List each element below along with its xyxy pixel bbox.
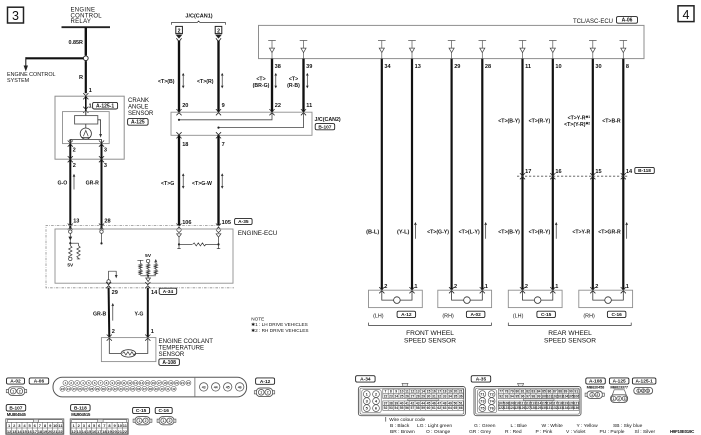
connector crossing at crank sensor pin 1 [83, 93, 88, 99]
CAN wire pin 38 to pin 22 [271, 59, 273, 113]
connector ref A-35 at ecu pin [235, 218, 253, 224]
svg-text:C-15: C-15 [541, 312, 552, 318]
svg-text:66: 66 [459, 406, 463, 410]
svg-text:59: 59 [421, 406, 425, 410]
svg-text:43: 43 [202, 385, 206, 389]
svg-text:38: 38 [149, 387, 153, 391]
svg-text:61: 61 [432, 406, 436, 410]
svg-text:GR-R: GR-R [86, 181, 100, 187]
CAN bus line 2 inside J/C(CAN2) [219, 112, 304, 127]
svg-text:A-125: A-125 [131, 120, 145, 126]
front left wheel speed sensor box [369, 290, 423, 307]
crank sensor pickup element rect [85, 112, 87, 116]
svg-text:1: 1 [12, 389, 14, 393]
svg-text:26: 26 [78, 387, 82, 391]
svg-text:MB823377: MB823377 [610, 384, 627, 389]
svg-text:2: 2 [454, 284, 457, 290]
svg-text:MU804515: MU804515 [71, 412, 91, 417]
svg-text:23: 23 [389, 394, 393, 398]
svg-text:J/C(CAN2): J/C(CAN2) [315, 117, 341, 123]
svg-text:B-107: B-107 [318, 124, 331, 130]
svg-text:88: 88 [558, 390, 562, 394]
svg-text:34: 34 [384, 64, 391, 70]
front wheel speed sensor bracket [369, 323, 492, 326]
svg-text:53: 53 [389, 406, 393, 410]
direction arrow CAN-B [182, 74, 184, 88]
svg-text:(R-B): (R-B) [287, 83, 300, 89]
svg-text:25: 25 [72, 387, 76, 391]
connector crossing ecu pin 14 [145, 282, 150, 288]
svg-text:REAR WHEEL: REAR WHEEL [548, 330, 592, 337]
svg-text:A-02: A-02 [10, 379, 21, 385]
svg-text:Wire colour code: Wire colour code [389, 417, 425, 423]
svg-text:20: 20 [453, 390, 457, 394]
svg-text:79: 79 [510, 390, 514, 394]
ecu 5V node below pin 13 [69, 257, 72, 260]
connector crossing can2 pin 20 [176, 109, 181, 115]
svg-text:1: 1 [638, 389, 640, 393]
TCL/ASC-ECU internal pin symbol 39 [300, 41, 308, 59]
svg-text:2: 2 [267, 391, 269, 395]
ecu resistor R2 branch [78, 243, 80, 246]
connector ref A-06 [617, 17, 638, 24]
svg-text:<T>(R-Y): <T>(R-Y) [529, 229, 551, 235]
svg-text:136: 136 [573, 406, 579, 410]
svg-text:<T>(R-Y): <T>(R-Y) [529, 118, 551, 124]
ecu pin 106 triangle [177, 230, 182, 232]
connector crossing rear left sensor pin 1 [550, 287, 555, 293]
svg-text:38: 38 [275, 64, 281, 70]
wire 0.85R from relay [85, 27, 87, 55]
direction arrow T-G [182, 174, 184, 188]
svg-text:A-12: A-12 [260, 379, 271, 385]
connector crossing ecu pin 106 [176, 224, 181, 230]
svg-text:45: 45 [427, 402, 431, 406]
svg-text:99: 99 [537, 394, 541, 398]
svg-text:SB : Sky blue: SB : Sky blue [613, 423, 643, 429]
ecu pin 28 input circle [100, 230, 103, 233]
wire colour code heading [385, 417, 387, 422]
svg-text:O : Orange: O : Orange [426, 429, 450, 435]
connector ref label C-15 [133, 407, 150, 413]
svg-text:94: 94 [510, 394, 514, 398]
svg-text:39: 39 [306, 64, 312, 70]
TCL/ASC-ECU internal pin symbol 30 [589, 41, 597, 59]
connector ref label A-02 bottom strip [7, 378, 25, 384]
svg-text:35: 35 [131, 387, 135, 391]
svg-text:13: 13 [73, 219, 79, 225]
ecu CAN terminating resistor [179, 243, 192, 245]
svg-text:3: 3 [104, 148, 107, 154]
svg-text:93: 93 [505, 394, 509, 398]
svg-text:37: 37 [143, 387, 147, 391]
svg-text:63: 63 [443, 406, 447, 410]
ecu pin 13 junction dot [69, 242, 71, 244]
svg-text:1: 1 [485, 284, 488, 290]
svg-text:7: 7 [385, 390, 387, 394]
svg-text:10: 10 [400, 390, 404, 394]
svg-text:9: 9 [222, 103, 225, 109]
ecu output triangle to pin 14 [147, 276, 149, 278]
svg-text:2: 2 [384, 284, 387, 290]
svg-text:98: 98 [531, 394, 535, 398]
svg-text:2: 2 [145, 419, 147, 423]
svg-text:22: 22 [123, 429, 128, 434]
connector crossing sensor pin 3 inner [99, 141, 104, 147]
svg-text:<T>GR-R: <T>GR-R [598, 229, 621, 235]
svg-text:SYSTEM: SYSTEM [7, 78, 30, 84]
wheel sensor wire 29 [451, 59, 453, 291]
svg-text:72: 72 [489, 392, 494, 397]
connector crossing rear left sensor pin 2 [520, 287, 525, 293]
svg-text:1: 1 [260, 391, 262, 395]
svg-text:22: 22 [384, 394, 388, 398]
connector crossing sensor pin 2 exit [68, 156, 73, 162]
connector ref label C-16 [155, 407, 172, 413]
svg-text:11: 11 [306, 103, 312, 109]
svg-text:11: 11 [405, 390, 409, 394]
svg-text:42: 42 [410, 402, 414, 406]
svg-text:5V: 5V [67, 262, 74, 268]
svg-text:1: 1 [163, 419, 165, 423]
svg-text:(B-L): (B-L) [366, 229, 379, 235]
svg-text:38: 38 [389, 402, 393, 406]
svg-text:81: 81 [521, 390, 525, 394]
svg-text:8: 8 [626, 64, 629, 70]
svg-text:MB820458: MB820458 [587, 384, 605, 389]
svg-text:92: 92 [499, 394, 503, 398]
svg-text:(RH): (RH) [583, 314, 595, 320]
svg-text:87: 87 [553, 390, 557, 394]
svg-text:36: 36 [459, 394, 463, 398]
svg-text:1: 1 [414, 284, 417, 290]
svg-text:18: 18 [163, 381, 167, 385]
svg-text:SENSOR: SENSOR [128, 111, 154, 117]
wire to engine control system [26, 57, 83, 59]
svg-text:PU : Purple: PU : Purple [600, 429, 625, 435]
arrow to engine control system [25, 57, 27, 66]
svg-text:30: 30 [595, 64, 601, 70]
svg-text:33: 33 [119, 387, 123, 391]
connector face A-34 [402, 383, 408, 387]
ecu 5V node circle [146, 259, 149, 262]
J/C(CAN1) bracket [172, 21, 226, 25]
svg-text:64: 64 [448, 406, 452, 410]
svg-text:CRANK: CRANK [128, 98, 149, 104]
svg-text:2: 2 [595, 284, 598, 290]
TCL/ASC-ECU internal pin symbol 10 [549, 41, 557, 59]
connector crossing B-118 pin 16 [550, 173, 555, 179]
svg-text:C-15: C-15 [136, 408, 147, 414]
svg-text:71: 71 [480, 392, 485, 397]
svg-text:55: 55 [400, 406, 404, 410]
svg-text:TCL/ASC-ECU: TCL/ASC-ECU [573, 19, 613, 25]
wire R to crank angle sensor [85, 61, 87, 93]
svg-text:22: 22 [58, 429, 63, 434]
direction arrow rear-left sensor wires [555, 223, 557, 239]
direction arrow front-left sensor wires [414, 223, 416, 239]
connector ref label A-35 [471, 376, 491, 382]
direction arrow GR-B [112, 304, 114, 321]
svg-text:13: 13 [134, 381, 138, 385]
svg-text:85: 85 [542, 390, 546, 394]
svg-text:3: 3 [12, 9, 19, 23]
svg-text:77: 77 [499, 390, 503, 394]
svg-text:16: 16 [432, 390, 436, 394]
svg-text:SPEED SENSOR: SPEED SENSOR [404, 337, 456, 344]
svg-text:40: 40 [160, 387, 164, 391]
svg-text:<T>G-W: <T>G-W [192, 181, 212, 187]
svg-text:28: 28 [485, 64, 491, 70]
svg-text:2: 2 [73, 163, 76, 169]
svg-text:(BR-G): (BR-G) [253, 83, 270, 89]
svg-text:MU804545: MU804545 [7, 412, 27, 417]
svg-text:45: 45 [226, 385, 230, 389]
svg-text:R : Red: R : Red [505, 429, 522, 435]
ecu pin 105 triangle [216, 230, 221, 232]
svg-text:15: 15 [595, 169, 601, 175]
CAN bus line 1 inside J/C(CAN2) [179, 112, 272, 120]
svg-text:A-125-1: A-125-1 [96, 104, 114, 110]
crank sensor inner unit box [63, 112, 110, 144]
svg-text:17: 17 [525, 169, 531, 175]
svg-text:14: 14 [140, 381, 144, 385]
svg-text:B : Black: B : Black [390, 423, 410, 429]
wire stub pin1 inside sensor [85, 96, 87, 111]
ecu 5V right branch arrow [155, 260, 157, 264]
ENGINE-ECU solid box [55, 229, 233, 283]
svg-text:75: 75 [480, 406, 485, 411]
svg-text:Y : Yellow: Y : Yellow [577, 423, 599, 429]
svg-text:30: 30 [102, 387, 106, 391]
svg-text:57: 57 [410, 406, 414, 410]
svg-text:<T>: <T> [256, 76, 265, 82]
crank sensor generator circle [85, 124, 87, 128]
wire GR-R [101, 159, 103, 229]
connector crossing coolant pin 2 [107, 335, 112, 341]
svg-text:<T>(L-Y): <T>(L-Y) [459, 229, 480, 235]
svg-text:32: 32 [437, 394, 441, 398]
svg-text:LG : Light green: LG : Light green [417, 423, 452, 429]
svg-text:1: 1 [591, 393, 593, 397]
svg-text:14: 14 [626, 169, 633, 175]
svg-text:35: 35 [453, 394, 457, 398]
connector crossing can2 pin 7 [216, 132, 221, 138]
coolant sensor internal wiring [109, 338, 121, 354]
intermediate connector B-118 dashed line [517, 175, 628, 177]
svg-text:V : Violet: V : Violet [566, 429, 586, 435]
svg-text:2: 2 [178, 28, 181, 34]
junction node circle [83, 56, 88, 61]
connector ref A-02 [466, 311, 485, 317]
svg-text:<T>Y-R: <T>Y-R [572, 229, 590, 235]
connector crossing can2 pin 11 [301, 109, 306, 115]
svg-text:2: 2 [525, 284, 528, 290]
ecu switched output to pin 29 [109, 271, 117, 280]
TCL/ASC-ECU internal pin symbol 8 [620, 41, 628, 59]
svg-text:24: 24 [394, 394, 398, 398]
svg-text:2: 2 [112, 329, 115, 335]
connector crossing can2 pin 18 [176, 132, 181, 138]
connector crossing sensor pin 2 inner [68, 141, 73, 147]
svg-text:GR-B: GR-B [93, 311, 107, 317]
svg-text:✱1 : LH DRIVE VEHICLES: ✱1 : LH DRIVE VEHICLES [251, 322, 308, 327]
svg-text:40: 40 [400, 402, 404, 406]
connector crossing ecu pin 13 [68, 224, 73, 230]
svg-text:ENGINE-ECU: ENGINE-ECU [238, 230, 278, 237]
svg-text:18: 18 [182, 142, 188, 148]
svg-text:39: 39 [394, 402, 398, 406]
wheel sensor wire 13 [411, 59, 413, 291]
svg-text:29: 29 [454, 64, 460, 70]
svg-text:16: 16 [555, 169, 561, 175]
svg-text:5V: 5V [145, 253, 152, 259]
TCL/ASC-ECU internal pin symbol 13 [408, 41, 416, 59]
svg-text:1: 1 [89, 104, 92, 110]
connector crossing ecu pin 105 [216, 224, 221, 230]
connector crossing coolant pin 1 [145, 335, 150, 341]
svg-text:15: 15 [146, 381, 150, 385]
svg-text:✱2 : RH DRIVE VEHICLES: ✱2 : RH DRIVE VEHICLES [251, 328, 308, 333]
svg-text:16: 16 [152, 381, 156, 385]
J/C(CAN1) connector 2 left [176, 26, 183, 33]
wire GR-B [108, 288, 111, 338]
svg-text:84: 84 [537, 390, 541, 394]
svg-text:8: 8 [390, 390, 392, 394]
svg-text:78: 78 [505, 390, 509, 394]
TCL/ASC-ECU box [259, 25, 645, 58]
svg-text:49: 49 [448, 402, 452, 406]
connector crossing rear right sensor pin 1 [621, 287, 626, 293]
connector ref C-16 [607, 311, 626, 317]
connector face B-118 [70, 419, 128, 434]
connector face A-108 [587, 391, 602, 398]
svg-text:22: 22 [275, 103, 281, 109]
connector ref B-118 [635, 167, 655, 173]
connector ref B-107 [315, 124, 335, 130]
svg-text:44: 44 [214, 385, 218, 389]
svg-text:15: 15 [427, 390, 431, 394]
J/C(CAN1) connector 2 right [215, 26, 222, 33]
connector face A-125-1 [634, 387, 653, 394]
svg-text:RELAY: RELAY [71, 19, 92, 25]
svg-text:2: 2 [596, 393, 598, 397]
svg-text:80: 80 [515, 390, 519, 394]
svg-text:34: 34 [125, 387, 129, 391]
crank sensor internal ground line [70, 138, 101, 140]
svg-text:34: 34 [448, 394, 452, 398]
svg-text:89: 89 [564, 390, 568, 394]
connector ref C-15 [537, 311, 556, 317]
svg-text:60: 60 [427, 406, 431, 410]
svg-text:30: 30 [427, 394, 431, 398]
svg-text:90: 90 [569, 390, 573, 394]
svg-text:19: 19 [448, 390, 452, 394]
svg-text:14: 14 [421, 390, 425, 394]
svg-text:39: 39 [154, 387, 158, 391]
connector face A-02 [8, 387, 25, 396]
connector face A-12 [256, 388, 273, 397]
connector crossing can2 pin 9 [216, 109, 221, 115]
connector crossing B-118 pin 14 [621, 173, 626, 179]
svg-text:P : Pink: P : Pink [536, 429, 553, 435]
svg-text:12: 12 [410, 390, 414, 394]
svg-text:41: 41 [166, 387, 170, 391]
svg-text:52: 52 [384, 406, 388, 410]
wheel sensor wire 8 [622, 59, 624, 291]
connector ref label A-34 [356, 376, 376, 382]
wheel sensor wire 30 [592, 59, 594, 291]
svg-text:<T>G: <T>G [161, 181, 174, 187]
direction arrow on wire G-O [73, 175, 75, 190]
svg-text:(LH): (LH) [513, 314, 524, 320]
coolant sensor thermistor [121, 350, 136, 357]
svg-text:Y-G: Y-G [135, 311, 144, 317]
connector ref label A-06 bottom strip [29, 378, 49, 384]
CAN-B wire J/C(CAN1) to pin 20 [178, 41, 180, 113]
svg-text:27: 27 [84, 387, 88, 391]
svg-text:ANGLE: ANGLE [128, 104, 148, 110]
svg-text:3: 3 [624, 397, 626, 401]
svg-text:36: 36 [137, 387, 141, 391]
svg-text:56: 56 [405, 406, 409, 410]
svg-text:10: 10 [555, 64, 561, 70]
ecu CAN terminator left stem [178, 237, 180, 248]
CAN wire pin 39 to pin 11 [302, 59, 304, 113]
svg-text:47: 47 [437, 402, 441, 406]
direction arrow rear-right sensor wires [626, 223, 628, 239]
svg-text:2: 2 [19, 389, 21, 393]
direction arrow R-B [306, 74, 308, 88]
svg-text:(Y-L): (Y-L) [397, 229, 410, 235]
ecu pin 13 comparator arrow [68, 237, 72, 241]
svg-text:1: 1 [139, 419, 141, 423]
svg-text:37: 37 [384, 402, 388, 406]
connector ref label A-108 bottom strip [586, 378, 606, 384]
svg-text:95: 95 [515, 394, 519, 398]
TCL/ASC-ECU internal pin symbol 29 [448, 41, 456, 59]
svg-text:A-02: A-02 [470, 312, 481, 318]
svg-text:91: 91 [574, 390, 578, 394]
svg-text:41: 41 [405, 402, 409, 406]
wheel sensor wire 10 [552, 59, 554, 291]
rear right wheel speed sensor box [579, 290, 633, 307]
svg-text:25: 25 [400, 394, 404, 398]
crank angle sensor box [55, 96, 124, 159]
svg-text:W : White: W : White [542, 423, 563, 429]
TCL/ASC-ECU internal pin symbol 38 [268, 41, 276, 59]
svg-text:NOTE: NOTE [251, 317, 264, 322]
svg-text:74: 74 [489, 399, 494, 404]
svg-text:2: 2 [169, 419, 171, 423]
connector crossing front right sensor pin 1 [480, 287, 485, 293]
ecu pin 28 stub wire [101, 233, 103, 242]
svg-text:13: 13 [416, 390, 420, 394]
direction arrow T-G-W [221, 174, 223, 188]
TCL/ASC-ECU internal pin symbol 11 [519, 41, 527, 59]
svg-text:R: R [79, 75, 83, 81]
TCL/ASC-ECU internal pin symbol 28 [479, 41, 487, 59]
ecu 5V left branch [137, 260, 143, 263]
connector crossing A-125-1 [83, 107, 88, 113]
ecu pull-up branch link [70, 242, 78, 244]
svg-text:4: 4 [683, 8, 690, 22]
wire Y-G [147, 288, 149, 338]
svg-text:<T>B-R: <T>B-R [602, 118, 621, 124]
ENGINE-ECU dashed outline [46, 226, 234, 288]
connector crossing can2 pin 22 [269, 109, 274, 115]
svg-text:106: 106 [573, 394, 579, 398]
